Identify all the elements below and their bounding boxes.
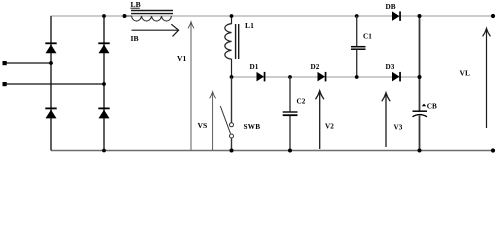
node: output bottom: [418, 149, 422, 153]
inductor L1 core lines: [235, 24, 237, 59]
terminal: output bottom dot: [491, 148, 495, 152]
arrow V2 (voltage): [316, 91, 324, 149]
wire: output node vertical: [419, 16, 421, 111]
svg-text:L1: L1: [245, 21, 254, 30]
capacitor CB (polarized): [413, 111, 428, 117]
bridge diode top-right: [98, 42, 109, 53]
wire: AC input line 1: [5, 62, 51, 64]
arrow V1 (voltage): [188, 22, 194, 150]
wire: top rail: [51, 15, 494, 17]
svg-text:SWB: SWB: [244, 123, 261, 131]
terminal: output top dot: [491, 14, 495, 18]
node: LB left terminal: [123, 14, 127, 18]
svg-text:VL: VL: [460, 68, 471, 77]
bridge diode bottom-left: [45, 108, 56, 119]
switch SWB: [220, 77, 233, 151]
svg-text:D2: D2: [311, 63, 320, 71]
svg-text:CB: CB: [427, 102, 437, 110]
wire: middle rail: [232, 76, 420, 78]
wire: bridge right leg: [103, 16, 105, 151]
CB polarity marker: [422, 104, 427, 107]
svg-text:V1: V1: [177, 54, 186, 63]
node: right leg bottom: [102, 149, 106, 153]
bridge diode top-left: [45, 42, 56, 53]
svg-text:V2: V2: [325, 123, 334, 131]
node: right leg / input 2 junction: [102, 82, 106, 86]
node: C1 bottom on mid rail: [355, 75, 359, 79]
bridge diode bottom-right: [98, 108, 109, 119]
diode D1: [257, 72, 266, 82]
capacitor C1: [351, 16, 366, 77]
svg-text:DB: DB: [386, 3, 396, 11]
inductor LB coil: [125, 16, 172, 21]
capacitor C2: [283, 77, 298, 151]
arrow VS (voltage): [210, 92, 216, 150]
svg-text:D1: D1: [250, 63, 259, 71]
svg-text:IB: IB: [131, 34, 139, 43]
wire: bridge left leg: [50, 16, 52, 151]
arrow VL (voltage): [483, 28, 491, 128]
node: C2 bottom: [288, 149, 292, 153]
node: output mid: [418, 75, 422, 79]
svg-text:V3: V3: [394, 123, 403, 131]
node: output top: [418, 14, 422, 18]
svg-text:VS: VS: [198, 121, 208, 130]
terminal: AC input 2 square: [3, 82, 7, 86]
inductor L1 coil: [225, 16, 232, 77]
node: right leg top: [102, 14, 106, 18]
svg-text:D3: D3: [386, 63, 395, 71]
node: left leg / input 1 junction: [49, 61, 53, 65]
diode D2: [318, 72, 327, 82]
node: C1 top on top rail: [355, 14, 359, 18]
svg-text:C2: C2: [297, 98, 306, 106]
node: SWB bottom: [230, 149, 234, 153]
wire: AC input line 2: [5, 83, 104, 85]
node: L1 top: [230, 14, 234, 18]
inductor LB core lines: [131, 10, 173, 12]
node: C2 tap on mid rail: [288, 75, 292, 79]
arrow V3 (voltage): [382, 93, 390, 147]
node: L1 bottom / mid rail: [230, 75, 234, 79]
svg-text:C1: C1: [363, 32, 372, 40]
wire: bottom rail: [51, 150, 493, 152]
diode DB: [392, 11, 401, 21]
terminal: AC input 1 square: [3, 61, 7, 65]
arrow IB (current): [132, 24, 179, 36]
diode D3: [392, 72, 401, 82]
